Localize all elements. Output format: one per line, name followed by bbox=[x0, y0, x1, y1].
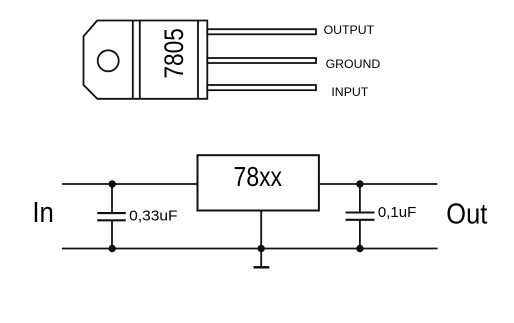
node: C2 top junction bbox=[356, 180, 363, 187]
svg-text:78xx: 78xx bbox=[234, 161, 283, 192]
svg-text:In: In bbox=[32, 197, 54, 229]
tab divider line 1 bbox=[132, 21, 134, 99]
wire: output top rail bbox=[319, 183, 438, 185]
regulator package U1 (7805 TO-220 outline) bbox=[84, 21, 208, 99]
node: C1 top junction bbox=[109, 180, 116, 187]
capacitor C1 bottom plate bbox=[97, 219, 126, 221]
wire: C2 bottom lead bbox=[359, 220, 361, 249]
node: ground junction bbox=[258, 245, 265, 252]
capacitor C2 bottom plate bbox=[346, 219, 375, 221]
ground symbol bar bbox=[254, 266, 270, 269]
svg-text:7805: 7805 bbox=[159, 28, 189, 79]
pin 1 (output lead) bbox=[207, 29, 316, 34]
wire: input top rail bbox=[62, 183, 198, 185]
mounting hole bbox=[98, 50, 119, 71]
pin 3 (input lead) bbox=[207, 85, 316, 90]
svg-text:OUTPUT: OUTPUT bbox=[324, 23, 375, 37]
svg-text:0,33uF: 0,33uF bbox=[129, 208, 177, 225]
wire: bottom common rail bbox=[62, 248, 438, 250]
wire: ground stub from regulator bbox=[260, 211, 262, 267]
wire: C2 top lead bbox=[359, 184, 361, 213]
regulator U2 box 78xx bbox=[198, 155, 319, 210]
svg-text:INPUT: INPUT bbox=[331, 85, 368, 99]
body front edge line bbox=[197, 21, 199, 99]
capacitor C1 top plate bbox=[97, 212, 126, 214]
tab divider line 2 bbox=[139, 21, 141, 99]
wire: C1 top lead bbox=[111, 184, 113, 213]
capacitor C2 top plate bbox=[346, 211, 375, 213]
svg-text:0,1uF: 0,1uF bbox=[378, 204, 416, 221]
wire: C1 bottom lead bbox=[111, 220, 113, 248]
pin 2 (ground lead) bbox=[207, 58, 316, 63]
node: C2 bottom junction bbox=[356, 245, 363, 252]
svg-text:GROUND: GROUND bbox=[326, 57, 381, 71]
svg-text:Out: Out bbox=[446, 198, 487, 230]
node: C1 bottom junction bbox=[109, 245, 116, 252]
